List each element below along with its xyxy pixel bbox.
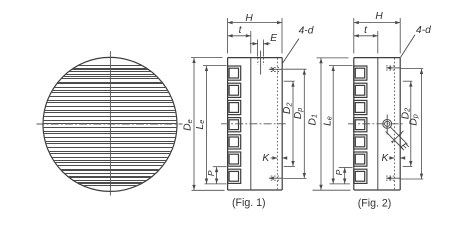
svg-text:Le: Le	[322, 116, 333, 126]
svg-text:K: K	[262, 152, 270, 163]
fig1 axis centerline	[221, 123, 287, 125]
svg-text:Dp: Dp	[408, 114, 419, 125]
fig1 top hole hidden lines	[257, 58, 259, 65]
fig1 top hole centerline	[260, 51, 262, 75]
svg-text:E: E	[270, 33, 277, 44]
front view tooth lines	[44, 66, 177, 186]
fig2 dimension P	[339, 166, 353, 168]
fig1 tooth/body boundary	[250, 58, 252, 190]
fig2 dimension Le	[329, 65, 353, 67]
fig2 teeth	[354, 66, 367, 183]
fig1 dimension E	[257, 40, 259, 57]
fig2 dimension D2	[403, 80, 413, 82]
fig2 dimension K	[389, 157, 395, 159]
fig1 dimension K	[271, 157, 278, 159]
svg-text:H: H	[245, 13, 253, 24]
fig2 axis centerline	[348, 123, 405, 125]
svg-text:Le: Le	[195, 120, 206, 130]
fig2 4-d leader	[401, 35, 416, 58]
svg-text:4-d: 4-d	[299, 25, 314, 36]
svg-text:Dp: Dp	[293, 108, 304, 119]
svg-text:(Fig. 2): (Fig. 2)	[358, 197, 392, 209]
svg-text:De: De	[182, 119, 193, 130]
fig1 side hole hidden lines	[271, 66, 279, 68]
svg-text:K: K	[382, 152, 390, 163]
fig1 teeth	[228, 66, 241, 183]
fig1 dimension P	[213, 166, 227, 168]
fig1 dimension Dp	[283, 68, 306, 70]
fig1 dimension t	[250, 31, 252, 54]
svg-text:4-d: 4-d	[416, 25, 431, 36]
fig2 bottom hole hidden lines	[386, 175, 395, 177]
svg-text:D2: D2	[282, 103, 293, 114]
fig2 hidden internal face line	[394, 58, 396, 189]
svg-text:D1: D1	[307, 114, 318, 125]
svg-text:H: H	[375, 11, 383, 22]
fig2 pulley body outline	[354, 57, 400, 59]
fig1 pulley body outline	[228, 57, 283, 59]
fig2 dimension H	[353, 18, 355, 54]
fig1 bottom hole arrow	[269, 177, 282, 179]
fig2 E dimension across 45deg lines	[394, 131, 403, 140]
fig1 4-d leader	[282, 39, 299, 64]
fig1 dimension H	[227, 18, 229, 54]
fig1 dimension Le	[203, 65, 227, 67]
fig1 dimension D2	[284, 80, 295, 82]
svg-text:P: P	[334, 169, 344, 175]
front view vertical centerline	[109, 51, 111, 196]
svg-text:(Fig. 1): (Fig. 1)	[232, 197, 266, 209]
dimension D1 (shared column)	[317, 57, 349, 59]
fig1 dimension De	[191, 57, 223, 59]
fig2 dimension Dp	[400, 68, 423, 70]
fig1 hidden internal face line	[276, 58, 278, 189]
front view pulley outline	[43, 57, 177, 191]
fig2 side hole hidden lines	[386, 65, 395, 67]
fig2 tooth/body boundary	[377, 58, 379, 190]
fig2 hole circle	[383, 120, 392, 129]
fig2 dimension t	[377, 31, 379, 54]
fig2 hole 45deg lines	[390, 127, 407, 144]
svg-text:P: P	[206, 170, 216, 176]
fig1 bottom hole hidden lines	[271, 175, 279, 177]
front view horizontal centerline	[37, 123, 183, 125]
fig2 bottom hole arrow	[386, 177, 400, 179]
fig2 hole vertical centerline	[386, 115, 388, 135]
